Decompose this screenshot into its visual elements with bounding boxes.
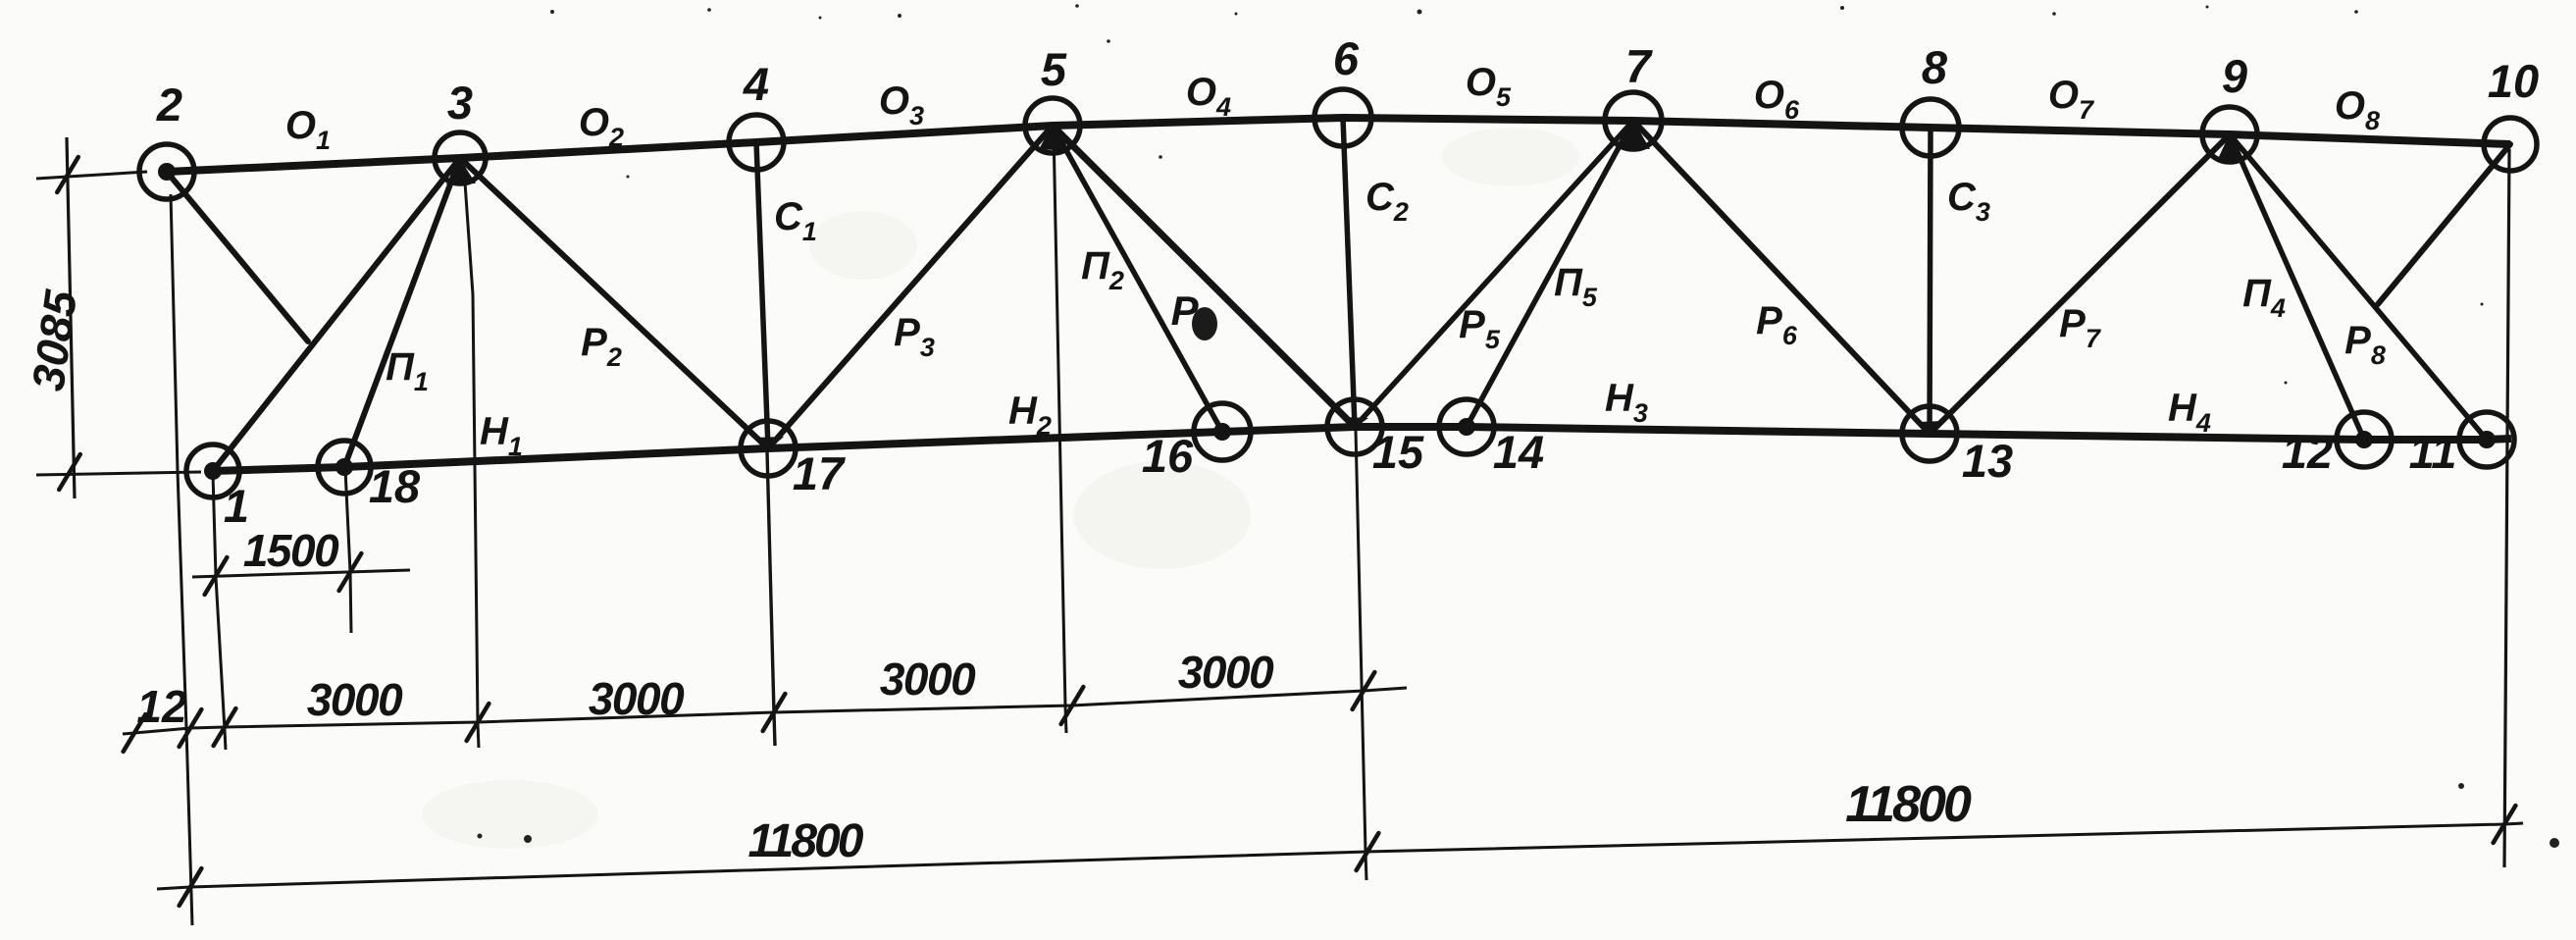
- vertical member C3 (8-13): [1930, 128, 1931, 434]
- svg-text:4: 4: [743, 58, 769, 110]
- diagonal member 9-11: [2230, 134, 2487, 440]
- diagonal member P4 (5-15): [1053, 126, 1355, 427]
- node 11 circle: [2459, 412, 2514, 467]
- diagonal member 1-3: [213, 158, 460, 471]
- paper smudges: [1074, 461, 1251, 569]
- svg-text:8: 8: [1922, 41, 1948, 93]
- short diagonal stub from node 10: [2378, 144, 2510, 304]
- diagonal member P2 (3-17): [460, 158, 768, 448]
- node 7 circle: [1605, 92, 1662, 149]
- top chord (members O1-O8): [167, 118, 2510, 172]
- node 8 circle: [1902, 99, 1959, 156]
- diagonal member P1 (18-3): [344, 158, 460, 467]
- svg-text:11: 11: [2409, 426, 2457, 478]
- svg-text:3000: 3000: [307, 674, 403, 725]
- junction dot at node 12: [2355, 431, 2373, 448]
- extension line left of node 2 (top, for 3085 dim): [36, 172, 147, 179]
- svg-text:11800: 11800: [1845, 776, 1972, 833]
- junction blob at node 3: [446, 159, 476, 184]
- extension line below node 1: [213, 473, 226, 750]
- node 1 circle: [186, 444, 239, 497]
- svg-text:10: 10: [2488, 55, 2539, 107]
- svg-text:9: 9: [2222, 50, 2247, 102]
- node 12 circle: [2337, 412, 2392, 467]
- node 5 circle: [1025, 98, 1080, 153]
- diagonal member P2cyr (5-16): [1053, 126, 1222, 432]
- node 13 circle: [1902, 406, 1957, 461]
- svg-text:17: 17: [793, 447, 846, 499]
- junction dot at node 11: [2478, 431, 2496, 448]
- tick 11800 left: [180, 868, 202, 906]
- diagonal member P4cyr (9-12): [2230, 134, 2364, 440]
- svg-text:1500: 1500: [243, 525, 339, 576]
- short diagonal stub from node 2: [167, 172, 308, 341]
- extension line below node 5: [1054, 130, 1066, 733]
- svg-text:12: 12: [2282, 426, 2333, 478]
- diagonal member P5 (7-15): [1355, 121, 1633, 427]
- junction dot at node 18: [335, 458, 353, 476]
- svg-text:3: 3: [447, 77, 473, 129]
- bottom chord (members H1-H4): [213, 427, 2511, 471]
- tick 1500 left: [205, 557, 228, 595]
- tick 1500 right: [339, 553, 362, 591]
- extension line below node 17: [767, 451, 775, 746]
- svg-text:18: 18: [369, 460, 421, 512]
- junction blob at node 15: [1342, 417, 1368, 428]
- junction blob at node 9: [2217, 133, 2245, 163]
- svg-text:3000: 3000: [880, 653, 976, 705]
- svg-text:12: 12: [136, 681, 187, 732]
- vertical member C1 (4-17): [756, 142, 768, 448]
- tick at node3 axis on 3000 dim: [467, 704, 489, 741]
- diagonal member P5cyr (7-14): [1467, 121, 1633, 427]
- extension line below node 10: [2504, 149, 2509, 867]
- junction dot at node 14: [1458, 418, 1475, 436]
- node 6 circle: [1314, 89, 1371, 146]
- node 17 circle: [741, 421, 796, 476]
- tick bottom of 3085 dim: [59, 454, 80, 490]
- node 4 circle: [729, 115, 784, 170]
- tick 11800 right (node10 axis): [2494, 806, 2516, 843]
- extension line below node 18: [345, 469, 351, 633]
- tick at node17 axis on 3000 dim: [763, 694, 786, 731]
- extension line below node 2 down to overall dim: [171, 194, 192, 925]
- dimension line of 3000 spans: [123, 688, 1407, 734]
- overall dimension line 11800: [157, 823, 2523, 889]
- junction dot at node 1: [204, 462, 222, 480]
- svg-text:5: 5: [1041, 43, 1067, 95]
- node 10 circle: [2484, 118, 2537, 171]
- junction blob at node 17: [753, 437, 784, 450]
- junction dot at node 16: [1213, 423, 1231, 441]
- svg-text:16: 16: [1142, 430, 1194, 482]
- node 18 circle: [318, 441, 371, 494]
- tick 11800 middle (node15 axis): [1357, 833, 1379, 870]
- node 3 circle: [435, 132, 486, 183]
- node 2 circle: [139, 144, 194, 199]
- svg-text:6: 6: [1333, 32, 1360, 84]
- vertical dimension line 3085: [67, 137, 75, 498]
- svg-text:11800: 11800: [748, 815, 864, 867]
- tick top of 3085 dim: [57, 157, 78, 192]
- svg-text:3000: 3000: [1178, 647, 1274, 698]
- node 15 circle: [1327, 399, 1382, 454]
- svg-text:7: 7: [1625, 40, 1653, 92]
- tick at node2 axis on 3000 dim: [180, 709, 202, 747]
- dimension line 1500: [192, 570, 410, 577]
- junction blob at node 5: [1039, 125, 1069, 151]
- vertical member C2 (6-15): [1343, 118, 1355, 427]
- svg-text:1: 1: [224, 480, 249, 532]
- node 9 circle: [2202, 107, 2257, 162]
- tick at node15 axis on 3000 dim: [1353, 672, 1375, 709]
- svg-text:13: 13: [1962, 435, 2013, 487]
- svg-text:14: 14: [1493, 426, 1544, 478]
- svg-text:3000: 3000: [589, 673, 685, 724]
- tick at node1 axis on 3000 dim: [214, 708, 236, 746]
- svg-text:15: 15: [1372, 426, 1424, 478]
- svg-text:2: 2: [156, 78, 182, 131]
- extension line below node 15: [1356, 430, 1366, 880]
- tick at left end of 3000 dim: [124, 714, 146, 752]
- junction blob at node 13: [1917, 421, 1944, 436]
- diagonal member P6 (7-13): [1633, 121, 1930, 434]
- extension line left of node 1 (bottom, for 3085 dim): [36, 472, 201, 475]
- junction blob at node 7: [1619, 120, 1650, 149]
- extension line below node 3: [464, 169, 479, 748]
- tick at node5 axis on 3000 dim: [1061, 687, 1084, 724]
- smudge blob over P4 subscript: [1192, 307, 1217, 340]
- junction dot at node 2: [158, 163, 176, 181]
- diagonal member P7 (9-13): [1930, 134, 2230, 434]
- diagonal member P3 (5-17): [768, 126, 1053, 448]
- node 14 circle: [1439, 399, 1494, 454]
- node 16 circle: [1194, 403, 1251, 460]
